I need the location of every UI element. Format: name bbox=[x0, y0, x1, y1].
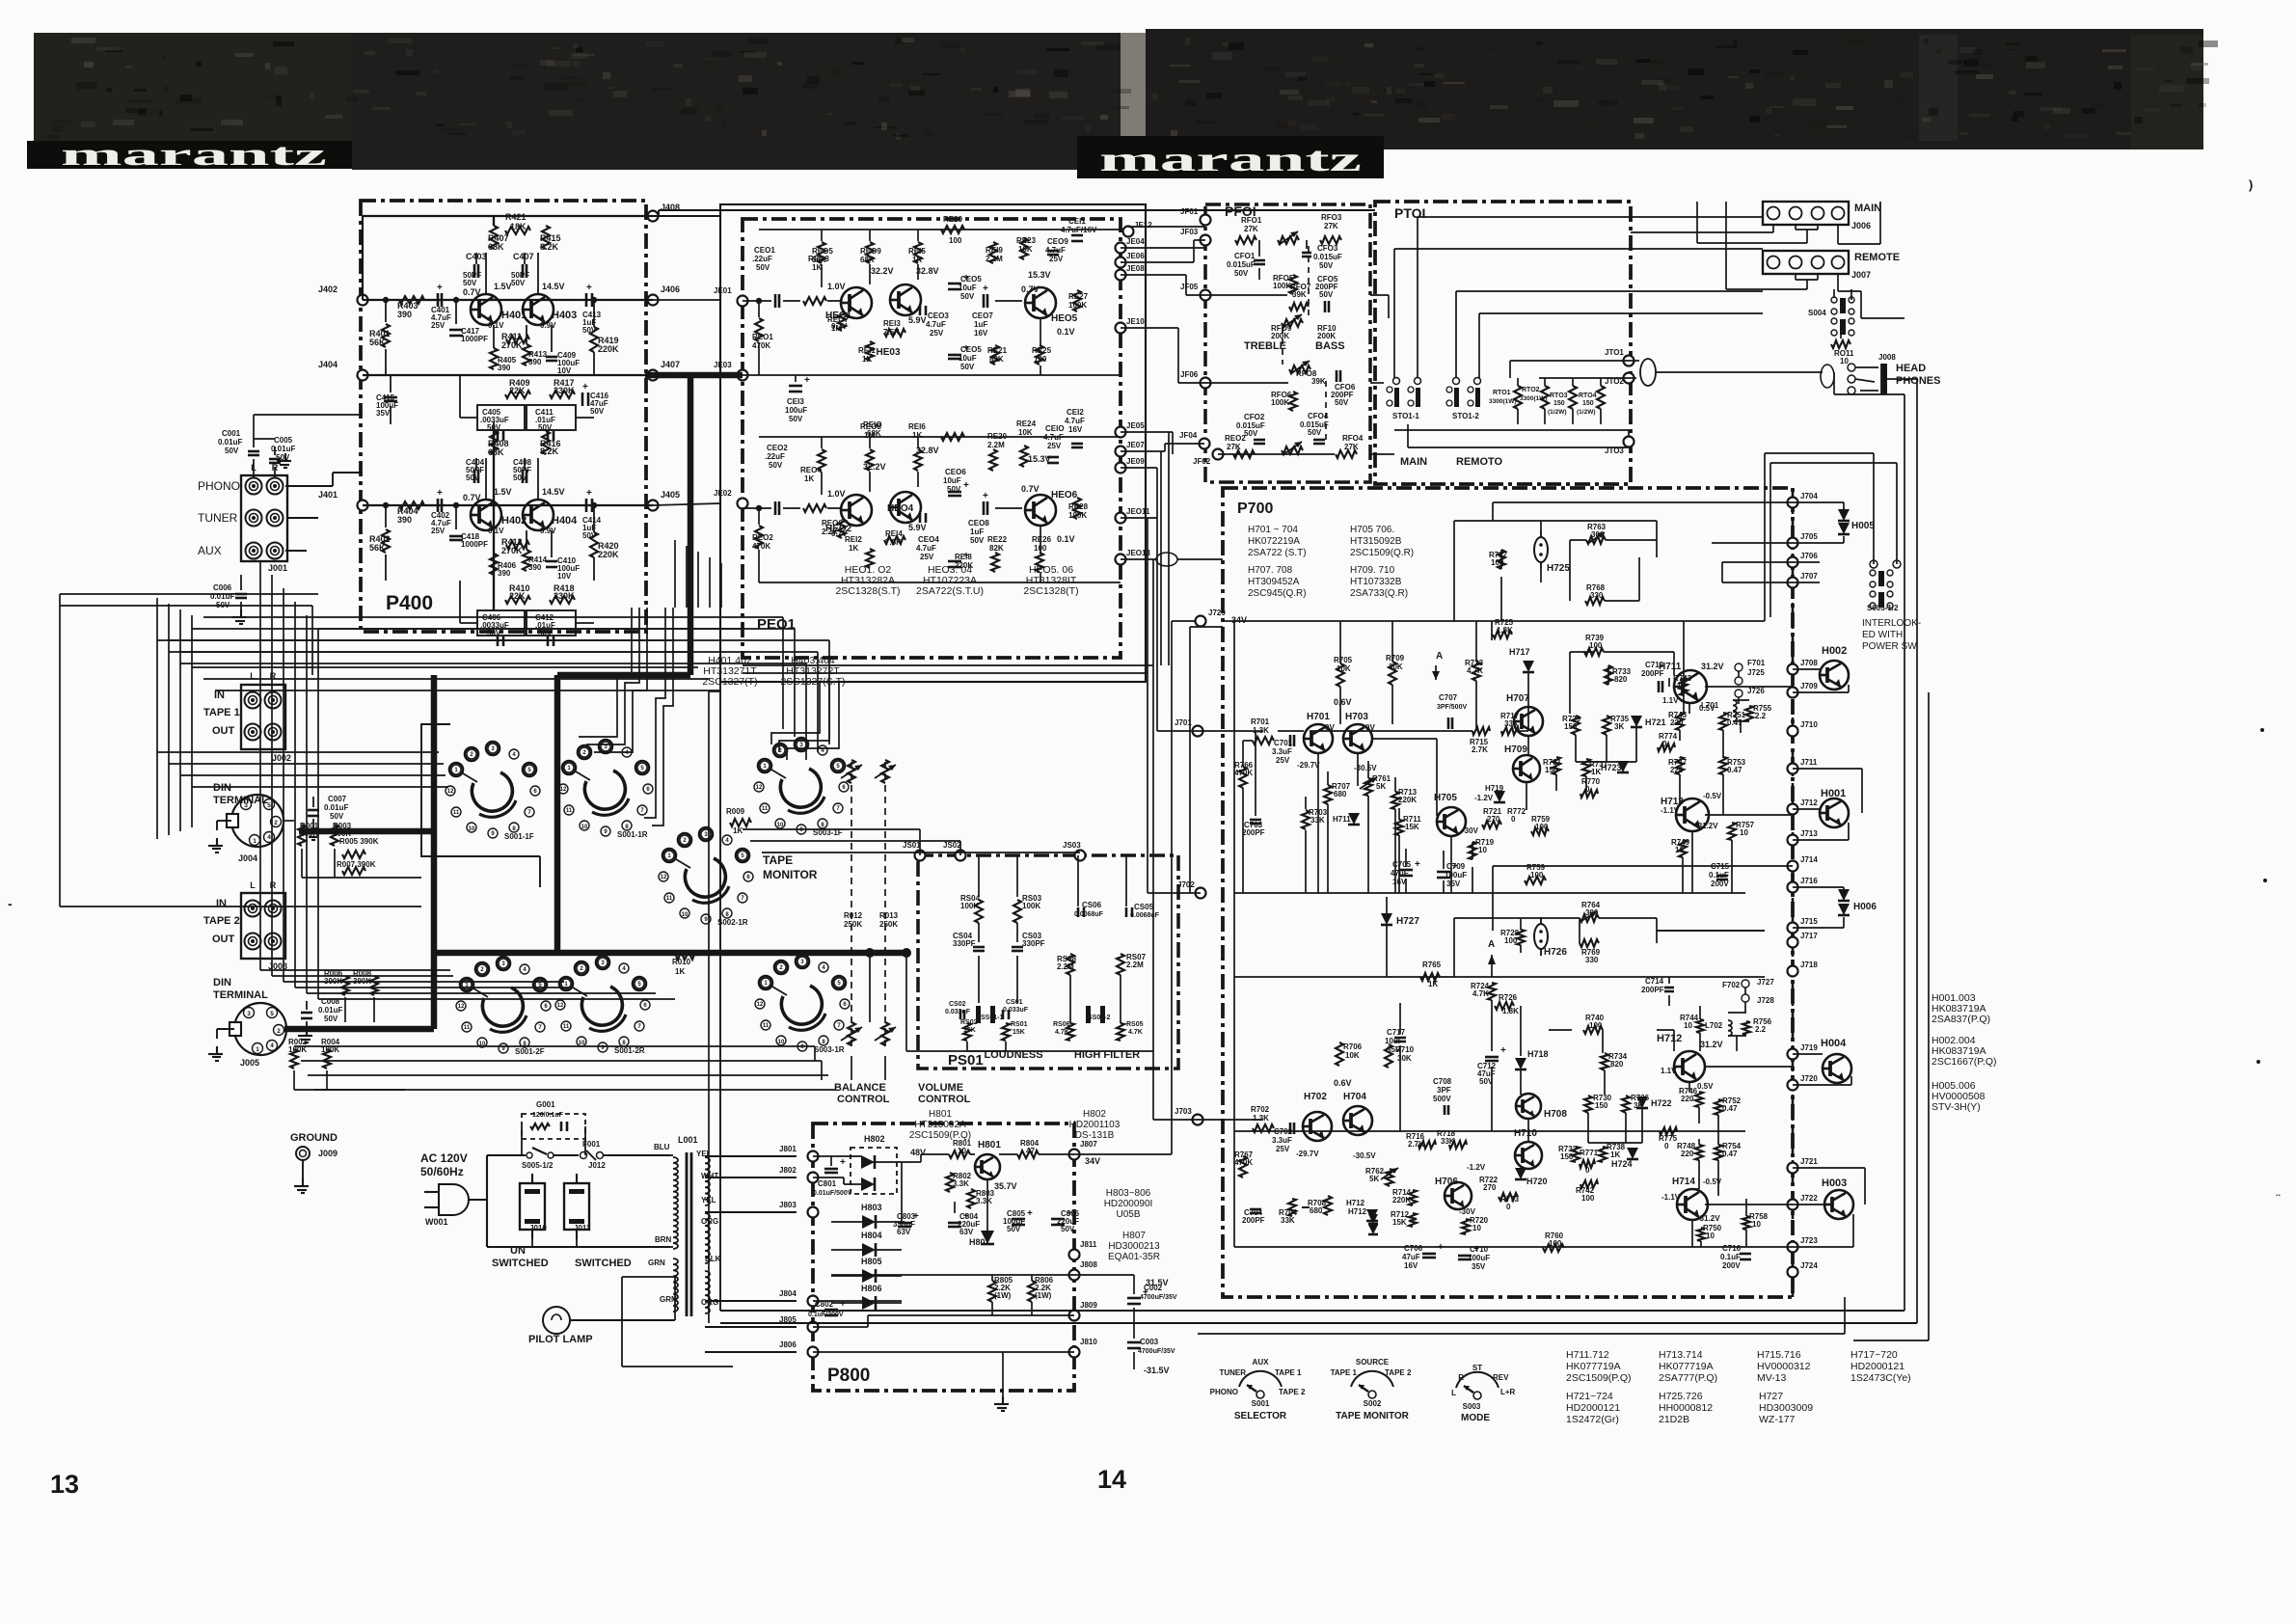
svg-text:C707: C707 bbox=[1439, 693, 1458, 702]
svg-text:220K: 220K bbox=[955, 561, 973, 570]
svg-text:220: 220 bbox=[1681, 1150, 1694, 1158]
svg-text:H720: H720 bbox=[1526, 1177, 1548, 1186]
svg-text:H806: H806 bbox=[861, 1284, 882, 1293]
wire bbox=[260, 969, 450, 971]
svg-text:REI5: REI5 bbox=[908, 247, 926, 256]
svg-text:PILOT LAMP: PILOT LAMP bbox=[528, 1334, 593, 1345]
svg-text:(1W): (1W) bbox=[994, 1291, 1012, 1300]
svg-text:+: + bbox=[437, 488, 443, 499]
svg-text:R421: R421 bbox=[505, 212, 527, 222]
wire bbox=[156, 598, 158, 839]
svg-text:31.2V: 31.2V bbox=[1701, 662, 1724, 671]
svg-text:AUX: AUX bbox=[198, 544, 222, 557]
svg-text:R705: R705 bbox=[1334, 656, 1353, 664]
svg-text:J707: J707 bbox=[1800, 572, 1818, 581]
svg-text:JF05: JF05 bbox=[1180, 283, 1199, 291]
wire bbox=[203, 678, 710, 680]
svg-text:1: 1 bbox=[256, 1046, 259, 1053]
wire bbox=[720, 563, 722, 608]
svg-text:0.47: 0.47 bbox=[1722, 1104, 1738, 1113]
svg-text:15K: 15K bbox=[963, 1027, 976, 1034]
svg-text:S001-2F: S001-2F bbox=[515, 1047, 545, 1056]
wire bbox=[294, 1045, 815, 1047]
svg-text:R706: R706 bbox=[1343, 1042, 1363, 1051]
svg-text:REO7: REO7 bbox=[827, 315, 849, 324]
svg-text:H717: H717 bbox=[1509, 647, 1530, 657]
svg-text:2.2M: 2.2M bbox=[987, 441, 1005, 449]
svg-text:47: 47 bbox=[1026, 1147, 1035, 1155]
svg-text:J722: J722 bbox=[1800, 1194, 1818, 1203]
svg-text:10: 10 bbox=[579, 1041, 585, 1046]
svg-text:RS06: RS06 bbox=[1053, 1021, 1070, 1028]
svg-text:J801: J801 bbox=[779, 1145, 797, 1153]
wire bbox=[1837, 289, 1839, 291]
wire bbox=[709, 557, 711, 608]
svg-text:L001: L001 bbox=[678, 1135, 698, 1145]
svg-text:16V: 16V bbox=[1404, 1261, 1418, 1270]
svg-text:C001: C001 bbox=[222, 429, 241, 438]
wire bbox=[653, 215, 720, 217]
svg-text:JE03: JE03 bbox=[714, 361, 732, 369]
svg-text:J009: J009 bbox=[318, 1149, 338, 1158]
svg-text:330K: 330K bbox=[554, 386, 575, 395]
wire bbox=[333, 472, 363, 474]
svg-text:H710: H710 bbox=[1514, 1128, 1537, 1139]
svg-text:H006: H006 bbox=[1853, 902, 1877, 912]
svg-text:30K: 30K bbox=[1389, 663, 1403, 671]
svg-text:0.1V: 0.1V bbox=[1057, 534, 1075, 544]
wire bbox=[1198, 1333, 1845, 1335]
wire bbox=[653, 503, 720, 505]
wire bbox=[1152, 559, 1154, 1120]
svg-text:25V: 25V bbox=[920, 553, 934, 561]
svg-text:H703: H703 bbox=[1345, 712, 1368, 722]
svg-text:STO1-2: STO1-2 bbox=[1452, 412, 1479, 420]
svg-text:50V: 50V bbox=[513, 474, 527, 482]
svg-text:15K: 15K bbox=[1392, 1218, 1407, 1227]
svg-text:270: 270 bbox=[1487, 815, 1500, 824]
svg-text:H707. 708: H707. 708 bbox=[1248, 565, 1293, 576]
svg-text:J725: J725 bbox=[1747, 668, 1765, 677]
svg-text:H803~806: H803~806 bbox=[1106, 1188, 1151, 1199]
svg-text:J807: J807 bbox=[1080, 1140, 1097, 1149]
wire bbox=[1765, 452, 1874, 454]
svg-text:220K: 220K bbox=[1392, 1196, 1411, 1204]
svg-text:100: 100 bbox=[1589, 641, 1603, 650]
svg-text:HD2000121: HD2000121 bbox=[1566, 1402, 1620, 1414]
svg-text:R765: R765 bbox=[1422, 961, 1442, 969]
wire bbox=[1121, 274, 1186, 276]
svg-text:4: 4 bbox=[270, 1042, 274, 1049]
svg-text:REV: REV bbox=[1493, 1373, 1509, 1382]
wire bbox=[314, 1089, 835, 1091]
svg-text:50V: 50V bbox=[756, 263, 770, 272]
ground bbox=[312, 826, 314, 833]
wire bbox=[318, 998, 675, 1000]
svg-text:L+R: L+R bbox=[1500, 1388, 1516, 1396]
svg-text:HEO6: HEO6 bbox=[1051, 490, 1078, 501]
svg-text:1K: 1K bbox=[912, 431, 922, 440]
svg-text:50V: 50V bbox=[1319, 261, 1334, 270]
svg-text:330: 330 bbox=[1585, 956, 1599, 964]
svg-text:0: 0 bbox=[1585, 1166, 1590, 1175]
wire bbox=[301, 849, 303, 878]
svg-text:MAIN: MAIN bbox=[1400, 456, 1427, 468]
svg-text:0.7V: 0.7V bbox=[463, 287, 481, 297]
wire bbox=[215, 690, 721, 691]
wire bbox=[1185, 275, 1187, 295]
svg-text:C717: C717 bbox=[1387, 1028, 1406, 1037]
svg-text:J407: J407 bbox=[661, 360, 680, 369]
svg-text:BRN: BRN bbox=[655, 1235, 672, 1244]
svg-text:J716: J716 bbox=[1800, 877, 1818, 885]
wire bbox=[1833, 372, 1835, 394]
wire bbox=[720, 1310, 1904, 1312]
wire bbox=[782, 617, 784, 729]
svg-text:): ) bbox=[2249, 177, 2253, 192]
svg-text:470K: 470K bbox=[1234, 769, 1253, 777]
svg-text:100K: 100K bbox=[960, 902, 979, 910]
wire bbox=[285, 485, 333, 487]
svg-text:S001-2R: S001-2R bbox=[614, 1046, 645, 1055]
svg-text:J721: J721 bbox=[1800, 1157, 1818, 1166]
ground bbox=[306, 1028, 308, 1036]
wire bbox=[1770, 462, 1897, 464]
svg-text:2.7K: 2.7K bbox=[1472, 745, 1488, 754]
svg-text:4700uF/35V: 4700uF/35V bbox=[1138, 1348, 1175, 1355]
svg-text:PTOI: PTOI bbox=[1394, 205, 1425, 221]
svg-text:500V: 500V bbox=[1433, 1095, 1451, 1103]
wire bbox=[318, 628, 743, 630]
svg-text:34V: 34V bbox=[1085, 1156, 1100, 1166]
svg-text:HT315092B: HT315092B bbox=[1350, 536, 1402, 547]
svg-text:0.01uF/500V: 0.01uF/500V bbox=[813, 1190, 852, 1197]
svg-text:0.1V: 0.1V bbox=[1057, 327, 1075, 337]
svg-text:RE23: RE23 bbox=[1016, 236, 1037, 245]
svg-text:CFO3: CFO3 bbox=[1317, 244, 1338, 253]
svg-text:REO5: REO5 bbox=[812, 247, 833, 256]
svg-text:J709: J709 bbox=[1800, 682, 1818, 690]
svg-text:2SC1509(P.Q): 2SC1509(P.Q) bbox=[1566, 1372, 1632, 1384]
svg-text:J803: J803 bbox=[779, 1201, 797, 1209]
svg-text:~: ~ bbox=[2148, 129, 2154, 140]
svg-text:L: L bbox=[250, 880, 256, 890]
wire bbox=[1002, 1352, 1004, 1396]
svg-text:33K: 33K bbox=[1441, 1137, 1455, 1146]
svg-text:H711: H711 bbox=[1333, 815, 1351, 824]
wire bbox=[557, 672, 690, 678]
svg-text:220: 220 bbox=[1670, 766, 1684, 774]
ground bbox=[240, 609, 242, 617]
svg-text:0.6V: 0.6V bbox=[1334, 1078, 1352, 1088]
svg-text:-30.5V: -30.5V bbox=[1353, 1151, 1376, 1160]
svg-text:INTERLOOK-: INTERLOOK- bbox=[1862, 618, 1921, 629]
svg-text:H701 ~ 704: H701 ~ 704 bbox=[1248, 525, 1298, 535]
wire bbox=[697, 552, 699, 608]
svg-text:32.8V: 32.8V bbox=[916, 446, 939, 455]
svg-text:J404: J404 bbox=[318, 360, 338, 369]
svg-text:680: 680 bbox=[1310, 1206, 1323, 1215]
wire bbox=[688, 378, 693, 675]
svg-text:200K: 200K bbox=[1317, 332, 1336, 340]
svg-text:JE08: JE08 bbox=[1126, 264, 1145, 273]
svg-text:H722: H722 bbox=[1651, 1098, 1672, 1108]
wire bbox=[1769, 463, 1771, 617]
svg-text:0.0068uF: 0.0068uF bbox=[1130, 912, 1160, 919]
svg-text:R771: R771 bbox=[1580, 1149, 1599, 1157]
wire bbox=[1904, 394, 1905, 1311]
wire bbox=[1153, 1119, 1198, 1121]
svg-text:-0.5V: -0.5V bbox=[1703, 792, 1722, 800]
wire bbox=[1838, 243, 1880, 245]
wire bbox=[659, 209, 1146, 211]
svg-text:10: 10 bbox=[1677, 682, 1686, 690]
svg-text:P700: P700 bbox=[1237, 501, 1273, 517]
wire bbox=[1186, 294, 1205, 296]
svg-text:CONTROL: CONTROL bbox=[918, 1094, 971, 1105]
ground bbox=[216, 1046, 218, 1054]
svg-text:4.7K: 4.7K bbox=[1472, 989, 1489, 998]
svg-text:J723: J723 bbox=[1800, 1236, 1818, 1245]
svg-text:RTO1: RTO1 bbox=[1493, 390, 1511, 396]
svg-text:C709: C709 bbox=[1446, 862, 1466, 871]
svg-text:50V: 50V bbox=[1007, 1225, 1021, 1233]
svg-text:100K: 100K bbox=[1271, 398, 1289, 407]
svg-text:3K: 3K bbox=[1614, 722, 1624, 731]
svg-text:330: 330 bbox=[1590, 591, 1604, 600]
svg-text:150: 150 bbox=[1564, 722, 1578, 731]
svg-text:HH0000812: HH0000812 bbox=[1659, 1402, 1713, 1414]
svg-text:1.1V: 1.1V bbox=[1662, 696, 1679, 705]
ground bbox=[284, 453, 286, 461]
svg-text:RE21: RE21 bbox=[987, 346, 1008, 355]
svg-text:0.01uF: 0.01uF bbox=[218, 438, 242, 447]
svg-text:1.8K: 1.8K bbox=[1502, 1007, 1519, 1015]
svg-text:JE02: JE02 bbox=[714, 489, 732, 498]
svg-text:TAPE 2: TAPE 2 bbox=[1279, 1388, 1306, 1396]
svg-text:CEO2: CEO2 bbox=[767, 444, 788, 452]
wire bbox=[192, 628, 795, 630]
svg-text:0: 0 bbox=[1664, 1142, 1669, 1150]
svg-text:C714: C714 bbox=[1645, 977, 1664, 986]
wire bbox=[743, 828, 920, 830]
svg-text:H704: H704 bbox=[1343, 1092, 1366, 1102]
svg-text:0.033uF: 0.033uF bbox=[945, 1009, 971, 1015]
svg-text:J802: J802 bbox=[779, 1166, 797, 1175]
svg-text:J402: J402 bbox=[318, 284, 338, 294]
svg-text:50V: 50V bbox=[970, 536, 985, 545]
wire bbox=[1853, 1340, 1929, 1341]
wire bbox=[254, 414, 363, 416]
svg-text:200PF: 200PF bbox=[1242, 828, 1265, 837]
svg-text:REO9: REO9 bbox=[860, 247, 881, 256]
svg-text:..: .. bbox=[2276, 1188, 2281, 1198]
svg-text:11: 11 bbox=[666, 896, 673, 902]
svg-text:J002: J002 bbox=[272, 753, 291, 763]
svg-text:25V: 25V bbox=[431, 527, 446, 535]
svg-text:390: 390 bbox=[528, 563, 542, 572]
svg-text:32.8V: 32.8V bbox=[916, 266, 939, 276]
svg-text:C801: C801 bbox=[818, 1179, 837, 1188]
svg-text:50V: 50V bbox=[1244, 429, 1258, 438]
svg-text:0.6V: 0.6V bbox=[1334, 697, 1352, 707]
wire bbox=[192, 786, 448, 788]
svg-text:-1.1V: -1.1V bbox=[1661, 806, 1680, 815]
wire bbox=[271, 575, 273, 976]
svg-text:11: 11 bbox=[763, 1023, 770, 1029]
svg-text:1K: 1K bbox=[812, 263, 822, 272]
svg-text:J008: J008 bbox=[1878, 353, 1896, 362]
svg-text:WHT: WHT bbox=[701, 1172, 718, 1180]
svg-text:50V: 50V bbox=[789, 415, 803, 423]
svg-text:H714: H714 bbox=[1672, 1177, 1695, 1187]
svg-text:39K: 39K bbox=[1311, 377, 1326, 386]
svg-text:1K: 1K bbox=[912, 256, 922, 264]
svg-text:16V: 16V bbox=[1068, 425, 1083, 434]
wire bbox=[308, 1074, 828, 1076]
svg-text:35V: 35V bbox=[1472, 1262, 1486, 1271]
svg-text:390: 390 bbox=[528, 358, 542, 366]
wire bbox=[828, 640, 830, 744]
svg-text:SWITCHED: SWITCHED bbox=[575, 1258, 632, 1269]
svg-text:J012: J012 bbox=[588, 1161, 606, 1170]
wire bbox=[1697, 242, 1807, 244]
svg-text:H712: H712 bbox=[1657, 1033, 1682, 1044]
svg-text:J728: J728 bbox=[1757, 996, 1774, 1005]
wire bbox=[997, 1407, 1007, 1409]
svg-text:(1W): (1W) bbox=[1035, 1291, 1052, 1300]
svg-text:HT107332B: HT107332B bbox=[1350, 577, 1402, 587]
svg-text:PEO1: PEO1 bbox=[757, 616, 796, 633]
svg-text:-1.1V: -1.1V bbox=[1661, 1193, 1681, 1202]
svg-text:+: + bbox=[586, 488, 592, 499]
wire bbox=[1121, 467, 1157, 469]
svg-text:39K: 39K bbox=[1292, 290, 1307, 299]
svg-text:22K: 22K bbox=[509, 386, 526, 395]
svg-text:H707: H707 bbox=[1506, 693, 1529, 704]
svg-text:63V: 63V bbox=[959, 1228, 974, 1236]
wire bbox=[1121, 247, 1205, 249]
svg-text:H801: H801 bbox=[978, 1140, 1001, 1150]
svg-text:HEO5: HEO5 bbox=[1051, 313, 1078, 324]
wire bbox=[1712, 542, 1793, 544]
svg-text:TAPE MONITOR: TAPE MONITOR bbox=[1336, 1411, 1410, 1421]
svg-text:10V: 10V bbox=[557, 572, 572, 581]
svg-text:REI4: REI4 bbox=[885, 529, 903, 538]
wire bbox=[434, 950, 557, 956]
svg-text:F702: F702 bbox=[1722, 981, 1741, 989]
svg-text:10K: 10K bbox=[1018, 245, 1033, 254]
svg-text:DIN: DIN bbox=[213, 977, 231, 988]
svg-text:S003: S003 bbox=[1463, 1402, 1481, 1411]
svg-text:PHONO: PHONO bbox=[198, 479, 240, 493]
svg-text:5K: 5K bbox=[1369, 1175, 1379, 1183]
svg-text:C716: C716 bbox=[1722, 1244, 1742, 1253]
svg-text:A: A bbox=[1436, 651, 1443, 662]
svg-text:HD2001103: HD2001103 bbox=[1069, 1120, 1121, 1130]
wire bbox=[307, 992, 656, 994]
svg-text:2: 2 bbox=[274, 820, 278, 826]
wire bbox=[1189, 627, 1191, 893]
svg-text:2SA722 (S.T): 2SA722 (S.T) bbox=[1248, 548, 1307, 558]
svg-text:16V: 16V bbox=[974, 329, 988, 338]
svg-text:J717: J717 bbox=[1800, 932, 1818, 940]
svg-text:3.3uF: 3.3uF bbox=[1272, 747, 1292, 756]
svg-text:HT309452A: HT309452A bbox=[1248, 577, 1300, 587]
svg-text:AC 120V: AC 120V bbox=[420, 1151, 468, 1165]
svg-text:RE26: RE26 bbox=[1032, 535, 1052, 544]
wire bbox=[1887, 378, 1917, 380]
svg-text:C708: C708 bbox=[1433, 1077, 1452, 1086]
wire bbox=[1860, 291, 1862, 318]
svg-text:HT315092A: HT315092A bbox=[914, 1120, 966, 1130]
svg-text:10K: 10K bbox=[1337, 664, 1351, 673]
svg-text:J719: J719 bbox=[1800, 1043, 1818, 1052]
wire bbox=[1121, 450, 1165, 452]
svg-text:CEO3: CEO3 bbox=[928, 311, 949, 320]
svg-text:1.1V: 1.1V bbox=[1661, 1067, 1677, 1075]
svg-text:14: 14 bbox=[1097, 1465, 1126, 1494]
svg-text:1S2473C(Ye): 1S2473C(Ye) bbox=[1850, 1372, 1911, 1384]
svg-text:IN: IN bbox=[216, 898, 227, 909]
wire bbox=[557, 950, 906, 956]
svg-text:150: 150 bbox=[1560, 1152, 1574, 1161]
svg-text:22K: 22K bbox=[509, 591, 526, 601]
svg-text:H712: H712 bbox=[1346, 1199, 1365, 1207]
wire bbox=[1168, 432, 1170, 665]
wire bbox=[326, 1070, 328, 1090]
svg-text:14.5V: 14.5V bbox=[542, 487, 565, 497]
wire bbox=[168, 604, 170, 835]
svg-text:R772: R772 bbox=[1507, 807, 1526, 816]
wire bbox=[762, 852, 1080, 853]
svg-text:RTO4: RTO4 bbox=[1579, 392, 1597, 399]
svg-text:10: 10 bbox=[1478, 846, 1487, 854]
wire bbox=[169, 651, 818, 653]
wire bbox=[851, 1056, 852, 1080]
wire bbox=[959, 841, 961, 855]
svg-text:TUNER: TUNER bbox=[198, 511, 238, 525]
svg-text:TAPE 1: TAPE 1 bbox=[203, 707, 240, 718]
svg-text:50V: 50V bbox=[582, 531, 597, 540]
svg-text:14.5V: 14.5V bbox=[542, 282, 565, 291]
svg-text:680: 680 bbox=[1334, 790, 1347, 798]
svg-text:100: 100 bbox=[1589, 1021, 1603, 1030]
svg-text:JF02: JF02 bbox=[1193, 457, 1211, 466]
svg-text:220: 220 bbox=[1681, 1095, 1694, 1103]
svg-text:27K: 27K bbox=[1344, 443, 1359, 451]
svg-text:HK072219A: HK072219A bbox=[1248, 536, 1300, 547]
svg-text:100: 100 bbox=[1530, 871, 1544, 880]
svg-text:4.7uF: 4.7uF bbox=[926, 320, 946, 329]
svg-text:2.2K: 2.2K bbox=[822, 528, 838, 536]
svg-text:4.7uF: 4.7uF bbox=[916, 544, 936, 553]
svg-text:P400: P400 bbox=[386, 592, 433, 614]
svg-text:27K: 27K bbox=[1244, 225, 1258, 233]
svg-text:BASS: BASS bbox=[1315, 340, 1345, 352]
svg-text:CONTROL: CONTROL bbox=[837, 1094, 890, 1105]
svg-text:390: 390 bbox=[397, 515, 412, 525]
svg-text:3: 3 bbox=[244, 802, 248, 809]
svg-text:REO4: REO4 bbox=[800, 466, 822, 474]
svg-text:1K: 1K bbox=[1610, 1150, 1620, 1159]
svg-text:R701: R701 bbox=[1251, 717, 1270, 726]
wire bbox=[1190, 892, 1201, 894]
svg-text:220: 220 bbox=[1670, 718, 1684, 727]
svg-text:2SA733(Q.R): 2SA733(Q.R) bbox=[1350, 588, 1408, 599]
svg-text:J011: J011 bbox=[574, 1224, 591, 1232]
svg-text:CS05: CS05 bbox=[1134, 903, 1154, 911]
